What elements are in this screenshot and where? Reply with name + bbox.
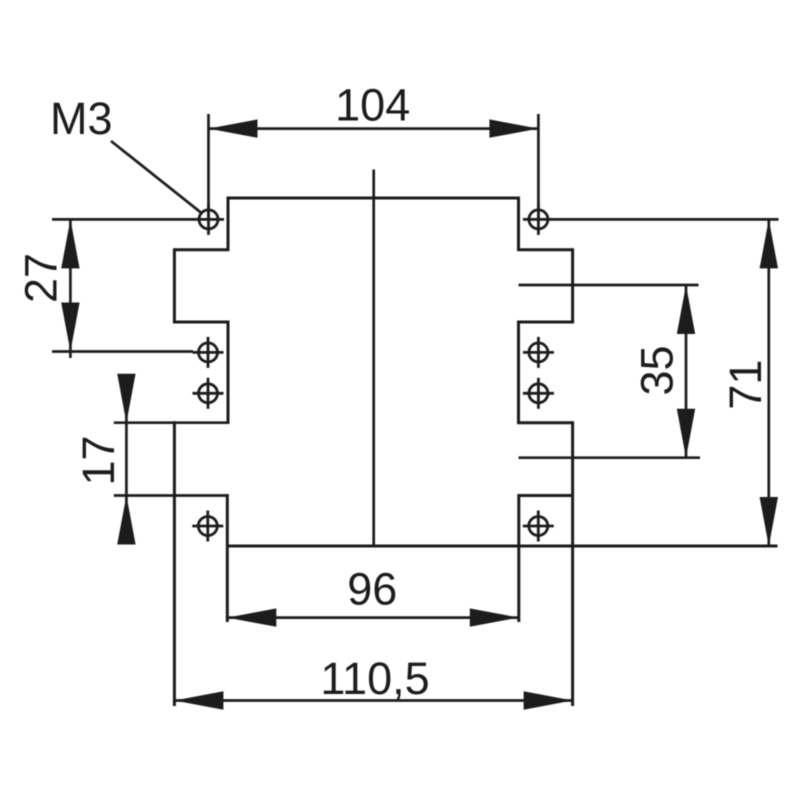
- dim 104 extension line right: [537, 114, 540, 219]
- screw hole mid-upper-right: [523, 337, 554, 368]
- outline tab edge left + 96 extension line: [226, 494, 229, 622]
- outline top-left vertical: [227, 197, 230, 250]
- svg-text:35: 35: [632, 345, 683, 395]
- screw hole mid-upper-left: [193, 337, 224, 368]
- dim 96 arrow left: [227, 608, 276, 626]
- outline lower step right: [517, 421, 573, 424]
- dim 71 arrow up: [760, 219, 778, 268]
- svg-text:96: 96: [347, 564, 397, 615]
- outline mid edge right: [517, 321, 520, 423]
- dim 71 line: [767, 219, 770, 546]
- outline top edge: [228, 197, 519, 200]
- svg-text:27: 27: [15, 253, 66, 303]
- outline lower wing left + 110.5 extension line: [173, 421, 176, 706]
- outline tab edge right + 96 extension line: [517, 494, 520, 622]
- screw hole bottom-left: [192, 511, 223, 542]
- dim 27 extension line bottom: [52, 350, 193, 353]
- screw hole top-right: [523, 204, 554, 235]
- dim 27 line: [69, 219, 72, 358]
- centerline: [372, 170, 375, 547]
- screw hole bottom-right: [523, 511, 554, 542]
- outline upper wing left: [173, 248, 176, 323]
- dim 71 arrow down: [760, 497, 778, 546]
- dim 35 arrow down: [677, 409, 695, 458]
- dim 17 extension line top (with outline lower step left): [114, 421, 230, 424]
- dim 110,5 line: [174, 699, 572, 702]
- screw hole top-left: [193, 204, 224, 235]
- outline upper step left: [174, 248, 229, 251]
- svg-text:M3: M3: [50, 93, 113, 144]
- dim 17 arrow up (below): [117, 496, 135, 545]
- outline upper wing right: [571, 248, 574, 323]
- leader line M3: [111, 141, 203, 214]
- dim 71 extension line top: [554, 218, 779, 221]
- svg-text:110,5: 110,5: [320, 653, 429, 704]
- outline mid edge left: [227, 321, 230, 423]
- svg-text:71: 71: [720, 360, 771, 410]
- dim 35 line: [685, 285, 688, 458]
- dim 35 arrow up: [677, 285, 695, 334]
- dim 27 extension line top: [52, 218, 194, 221]
- screw hole mid-lower-left: [193, 378, 224, 409]
- dim 104 extension line left: [207, 114, 210, 219]
- dim 110,5 arrow left: [174, 691, 223, 709]
- outline tab top right: [519, 494, 573, 497]
- dim 110,5 arrow right: [524, 691, 573, 709]
- dim 17 line shaft: [125, 376, 128, 544]
- outline step back right: [517, 321, 573, 324]
- dim 27 arrow up: [61, 219, 79, 268]
- dim 35 extension line top: [519, 284, 699, 287]
- outline lower wing right + 110.5 extension line: [571, 421, 574, 706]
- dim 104 line: [209, 127, 539, 130]
- outline upper step right: [517, 248, 573, 251]
- dim 104 arrow left: [209, 119, 258, 137]
- dim 17 extension line bottom (with outline tab top left): [114, 494, 228, 497]
- dim 35 extension line bottom: [519, 456, 701, 459]
- outline step back left: [174, 321, 229, 324]
- outline bottom edge + 71 extension line: [227, 545, 777, 548]
- svg-text:104: 104: [335, 79, 410, 130]
- outline top-right vertical: [517, 197, 520, 250]
- dim 96 line: [227, 616, 519, 619]
- dim 17 arrow down (above): [117, 374, 135, 423]
- dim 104 arrow right: [489, 119, 538, 137]
- dim 27 arrow down: [61, 303, 79, 352]
- dim 96 arrow right: [470, 608, 519, 626]
- svg-text:17: 17: [73, 435, 124, 485]
- screw hole mid-lower-right: [523, 378, 554, 409]
